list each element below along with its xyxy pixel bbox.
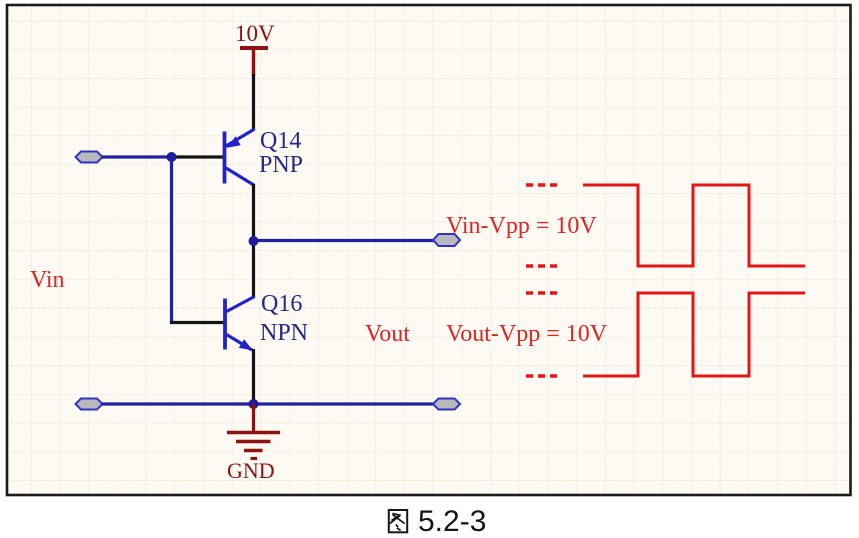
ground GND symbol (227, 404, 280, 459)
svg-text:Vout-Vpp = 10V: Vout-Vpp = 10V (446, 321, 608, 347)
junction input node (167, 152, 177, 162)
port Vin (input) (76, 152, 103, 163)
svg-text:Vin: Vin (30, 267, 65, 293)
transistor Q16 NPN (225, 297, 255, 351)
junction output node (249, 236, 259, 246)
svg-text:Vout: Vout (365, 321, 410, 347)
waveform Vin (526, 185, 805, 266)
port Vout (output) (433, 234, 460, 246)
wire junction down to Q16 base corner (170, 156, 173, 324)
svg-text:10V: 10V (235, 21, 275, 46)
wire corner to Q16 base (170, 321, 224, 324)
wire Q14 emitter to power (252, 74, 255, 130)
svg-text:PNP: PNP (259, 152, 303, 178)
port bottom-right (433, 399, 460, 410)
wire Q16 emitter to ground rail (252, 349, 255, 406)
svg-text:Q14: Q14 (260, 128, 301, 154)
power +10V bar (240, 48, 268, 76)
port bottom-left (76, 399, 103, 410)
wire junction to Q14 base (171, 155, 224, 158)
svg-text:Vin-Vpp = 10V: Vin-Vpp = 10V (446, 213, 597, 239)
wire input port to junction (102, 155, 172, 158)
wire output node to Q16 collector (252, 240, 255, 298)
transistor Q14 PNP (225, 129, 255, 186)
svg-text:Q16: Q16 (261, 291, 302, 317)
wire output node to output port (254, 239, 435, 242)
junction ground node (249, 399, 259, 409)
svg-text:NPN: NPN (260, 320, 308, 346)
wire ground rail (102, 402, 434, 405)
wire Q14 collector to output node (252, 184, 255, 243)
svg-text:5.2-3: 5.2-3 (418, 505, 486, 538)
waveform Vout (526, 293, 805, 376)
caption 图 5.2-3 (389, 505, 487, 538)
svg-text:GND: GND (227, 458, 275, 483)
